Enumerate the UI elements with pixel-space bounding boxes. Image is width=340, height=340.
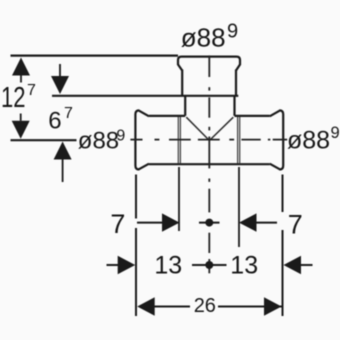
svg-text:7: 7 (64, 105, 73, 122)
svg-text:9: 9 (227, 21, 238, 43)
svg-text:13: 13 (154, 251, 182, 279)
svg-text:12: 12 (1, 82, 26, 114)
svg-text:9: 9 (331, 124, 340, 142)
svg-text:ø88: ø88 (181, 22, 226, 52)
svg-text:7: 7 (288, 209, 303, 239)
svg-text:26: 26 (194, 295, 216, 317)
svg-text:ø88: ø88 (78, 128, 119, 155)
svg-text:9: 9 (116, 128, 125, 145)
svg-text:ø88: ø88 (287, 126, 330, 154)
svg-text:7: 7 (27, 82, 36, 99)
svg-text:7: 7 (110, 209, 125, 239)
svg-text:13: 13 (230, 251, 258, 279)
svg-text:6: 6 (48, 107, 61, 134)
